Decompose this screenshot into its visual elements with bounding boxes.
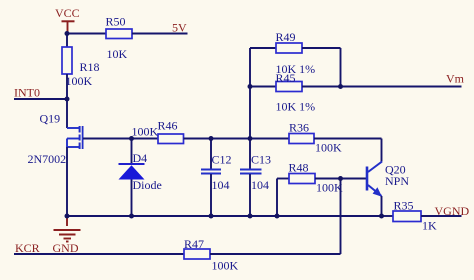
transistor Q20 (NPN) [367, 162, 382, 197]
wire R47 right up to base node [210, 253, 341, 255]
ground GND symbol [54, 216, 81, 242]
wire Q19 gate to node [83, 138, 158, 140]
node R48 drop [275, 214, 280, 219]
power VCC symbol [62, 21, 75, 33]
svg-text:Q19: Q19 [40, 112, 61, 126]
svg-text:R49: R49 [276, 30, 296, 44]
svg-text:100K: 100K [212, 259, 239, 273]
svg-text:INT0: INT0 [14, 86, 40, 100]
resistor R50 [106, 15, 133, 62]
svg-text:VGND: VGND [435, 204, 470, 218]
wire R35 to VGND [421, 215, 462, 217]
wire node down to R47 line [340, 179, 342, 255]
node emitter/R35 [379, 214, 384, 219]
wire R50 to 5V [132, 33, 188, 35]
wire R36 right to Q20 collector [314, 138, 382, 140]
wire R46 to R36 [184, 138, 290, 140]
resistor R49 [250, 30, 341, 76]
svg-text:10K: 10K [107, 47, 128, 61]
svg-text:C12: C12 [212, 153, 232, 167]
diode D4 [119, 139, 162, 217]
svg-text:NPN: NPN [385, 174, 409, 188]
node C12 top [209, 136, 214, 141]
svg-text:R36: R36 [289, 121, 309, 135]
svg-text:R46: R46 [158, 119, 178, 133]
svg-text:104: 104 [251, 178, 269, 192]
svg-text:5V: 5V [172, 21, 187, 35]
resistor R46 [132, 119, 184, 144]
svg-text:Diode: Diode [133, 178, 162, 192]
wire Q19 source to GND rail [66, 147, 68, 216]
svg-text:C13: C13 [251, 153, 271, 167]
node VCC/R50/R18 [65, 31, 70, 36]
wire Vm [341, 86, 462, 88]
svg-text:1K: 1K [422, 219, 437, 233]
ground rail [67, 215, 382, 217]
svg-text:R18: R18 [80, 60, 100, 74]
node Vm [338, 84, 343, 89]
svg-text:10K 1%: 10K 1% [276, 100, 316, 114]
resistor R47 [184, 237, 239, 273]
svg-text:100K: 100K [316, 181, 343, 195]
resistor R45 [250, 71, 341, 114]
svg-text:R50: R50 [106, 15, 126, 29]
wire VCC node to R50 [67, 33, 106, 35]
wire KCR to R47 [14, 253, 184, 255]
resistor R48 [289, 161, 344, 195]
svg-text:KCR: KCR [15, 241, 40, 255]
wire R49 right down to R45 right [340, 48, 342, 87]
resistor R36 [289, 121, 342, 155]
capacitor C12 [201, 139, 232, 217]
svg-text:100K: 100K [315, 141, 342, 155]
node C13 bottom [248, 214, 253, 219]
node INT0 [65, 97, 70, 102]
svg-text:GND: GND [53, 241, 79, 255]
svg-text:2N7002: 2N7002 [28, 152, 67, 166]
node D4 bottom [129, 214, 134, 219]
node R45 left [248, 84, 253, 89]
wire R48 left drop to GND rail [276, 179, 278, 217]
svg-text:100K: 100K [66, 74, 93, 88]
svg-text:VCC: VCC [55, 6, 80, 20]
wire R18 to INT0 node and Q19 drain [66, 74, 68, 128]
svg-text:100K: 100K [132, 125, 159, 139]
node C12 bottom [209, 214, 214, 219]
wire R48 to Q20 base [315, 178, 367, 180]
resistor R35 [393, 199, 437, 233]
svg-text:R47: R47 [184, 237, 204, 251]
wire VCC node down to R18 [66, 34, 68, 48]
node C13 top [248, 136, 253, 141]
resistor R18 [62, 47, 100, 88]
node GND [65, 214, 70, 219]
svg-text:D4: D4 [133, 151, 148, 165]
svg-text:R45: R45 [276, 71, 296, 85]
node R48/base [338, 176, 343, 181]
transistor Q19 (2N7002 MOSFET) [67, 126, 83, 149]
svg-text:R48: R48 [289, 161, 309, 175]
svg-text:R35: R35 [394, 199, 414, 213]
svg-text:104: 104 [212, 178, 230, 192]
svg-text:Vm: Vm [446, 72, 465, 86]
wire INT0 [14, 98, 67, 100]
capacitor C13 [240, 139, 271, 217]
node D4 top [129, 136, 134, 141]
wire C13 node up to R49/R45 [249, 48, 251, 139]
wire rail to R35 [382, 215, 394, 217]
